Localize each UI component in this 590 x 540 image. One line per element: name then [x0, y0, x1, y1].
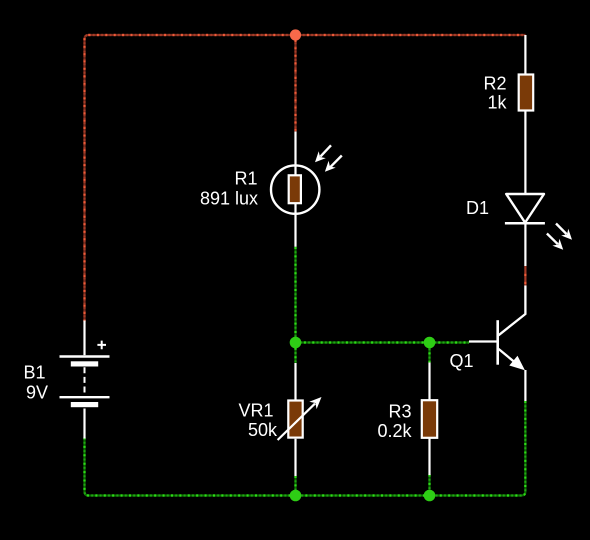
wire: R1 bottom down through node B to VR1 (green) [294, 247, 296, 364]
node D (bottom rail / VR1, green) [290, 490, 302, 502]
svg-text:Q1: Q1 [449, 351, 473, 371]
wire: R3 bottom to bottom rail (green) [428, 475, 430, 496]
wire: node B across to Q1 base (green) [296, 341, 470, 343]
svg-text:50k: 50k [248, 420, 278, 440]
battery B1 9V [23, 321, 109, 439]
wire: battery positive up left side and across top to R2 [85, 35, 526, 322]
LED D1 [466, 194, 572, 266]
svg-text:R2: R2 [483, 73, 506, 93]
node E (bottom rail / R3, green) [424, 490, 436, 502]
node B (R1/VR1/base junction, green) [290, 337, 302, 349]
svg-text:891 lux: 891 lux [200, 188, 258, 208]
potentiometer VR1 50k [238, 363, 321, 476]
wire: D1 cathode to Q1 collector (red) [524, 266, 526, 286]
wire: node C down to R3 (green) [428, 343, 430, 363]
wire: VR1 bottom to bottom rail (green) [294, 476, 296, 496]
svg-text:R1: R1 [234, 168, 257, 188]
svg-text:0.2k: 0.2k [377, 421, 412, 441]
svg-text:R3: R3 [388, 401, 411, 421]
resistor R1 (LDR, 891 lux) [200, 132, 342, 247]
node A (top junction, red) [290, 29, 301, 40]
svg-text:VR1: VR1 [238, 400, 273, 420]
svg-text:9V: 9V [26, 383, 48, 403]
svg-text:1k: 1k [487, 93, 507, 113]
wire: top node down to R1 [294, 35, 296, 132]
svg-text:B1: B1 [23, 362, 45, 382]
transistor Q1 (NPN) [449, 286, 525, 402]
resistor R3 0.2k [377, 363, 437, 476]
node C (R3 top junction, green) [424, 337, 436, 349]
svg-text:D1: D1 [466, 198, 489, 218]
wire: bottom rail from battery negative to Q1 emitter (green) [85, 401, 526, 496]
resistor R2 1k [483, 35, 533, 194]
